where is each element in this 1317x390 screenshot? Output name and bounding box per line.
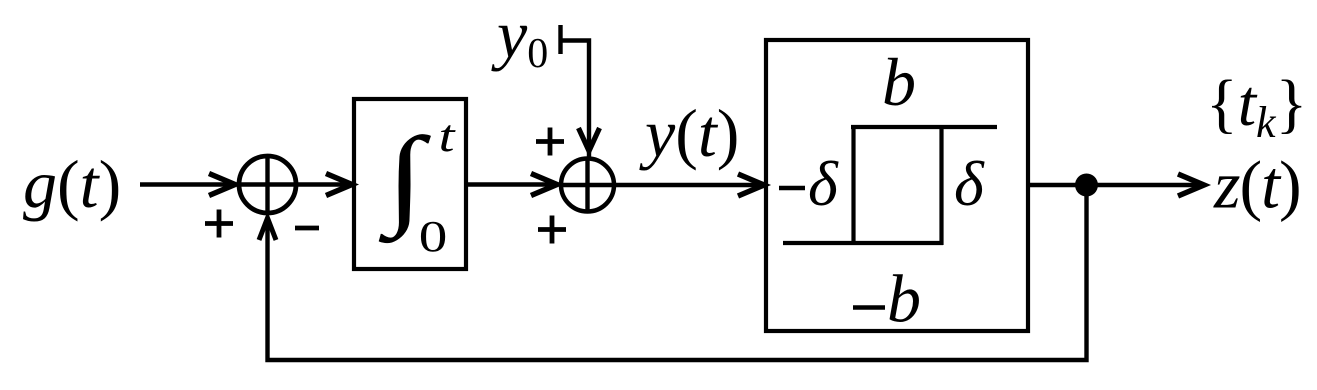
svg-text:{tk}: {tk} [1206, 67, 1307, 147]
svg-text:y(t): y(t) [639, 95, 739, 171]
arrowhead into summer S2 [531, 174, 557, 196]
y0 terminal tick [558, 25, 562, 54]
svg-text:y0: y0 [491, 0, 548, 77]
wire hysteresis block to output [1028, 183, 1204, 187]
svg-text:b: b [882, 44, 916, 120]
summing junction S1 [237, 154, 298, 215]
wire g(t) to summer S1 [140, 182, 235, 186]
node dot (pickoff point) [1075, 174, 1098, 197]
arrowhead into hysteresis block [738, 174, 764, 196]
integral symbol [378, 111, 456, 261]
label -delta (left threshold) [779, 148, 839, 219]
arrowhead into integrator [326, 174, 352, 196]
output arrowhead to z(t) [1178, 174, 1204, 196]
svg-text:z(t): z(t) [1213, 147, 1301, 223]
hysteresis block (relay) [766, 40, 1028, 331]
wire S1 to integrator [296, 182, 352, 186]
svg-text:t: t [439, 111, 457, 161]
wire S2 to hysteresis block [616, 183, 764, 187]
svg-text:g(t): g(t) [23, 146, 121, 222]
svg-text:0: 0 [419, 213, 448, 261]
summing junction S2 [559, 157, 616, 214]
integrator block U1 [354, 99, 466, 269]
feedback wire from node to summer S1 [268, 185, 1087, 360]
svg-text:δ: δ [808, 148, 839, 219]
wire integrator to summer S2 [466, 182, 557, 186]
svg-text:b: b [887, 261, 921, 337]
svg-text:δ: δ [954, 148, 985, 219]
plus sign at S2 top input [536, 128, 564, 156]
arrowhead into summer S1 [209, 174, 235, 196]
arrowhead y0 into S2 [579, 128, 600, 151]
wire y0 to summer S2 [561, 41, 590, 159]
plus sign at S1 input [205, 210, 233, 238]
feedback arrowhead into S1 [259, 218, 276, 240]
hysteresis curve [783, 125, 997, 245]
minus sign at S1 feedback [295, 226, 319, 231]
plus sign at S2 left input [538, 216, 566, 244]
label -b (lower level) [853, 261, 921, 337]
